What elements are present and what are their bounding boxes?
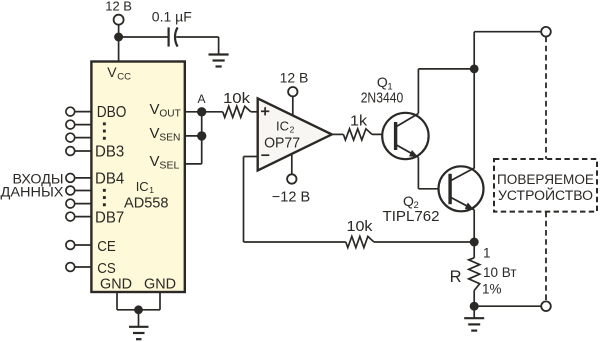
- svg-text:DBO: DBO: [97, 104, 127, 121]
- svg-text:1: 1: [149, 185, 154, 195]
- svg-text:10k: 10k: [347, 218, 374, 235]
- svg-text:OUT: OUT: [159, 108, 180, 119]
- svg-text:TIPL762: TIPL762: [383, 209, 440, 225]
- svg-text:12 В: 12 В: [280, 69, 309, 85]
- svg-text:2: 2: [290, 124, 295, 134]
- svg-text:V: V: [107, 64, 117, 80]
- svg-text:CS: CS: [97, 260, 116, 277]
- svg-text:12 В: 12 В: [105, 0, 132, 14]
- svg-text:10k: 10k: [223, 90, 251, 107]
- svg-text:Q: Q: [377, 74, 388, 90]
- svg-text:2N3440: 2N3440: [361, 91, 404, 107]
- svg-text:1%: 1%: [482, 282, 502, 297]
- svg-text:V: V: [150, 125, 160, 142]
- svg-text:DB7: DB7: [95, 209, 124, 226]
- svg-text:Q: Q: [403, 193, 414, 209]
- svg-text:IC: IC: [136, 179, 149, 194]
- svg-text:DB4: DB4: [95, 171, 125, 188]
- svg-text:1k: 1k: [350, 113, 368, 130]
- svg-text:CE: CE: [97, 238, 116, 255]
- svg-text:−12 В: −12 В: [272, 190, 310, 206]
- svg-text:OP77: OP77: [264, 134, 300, 151]
- svg-text:GND: GND: [100, 277, 132, 293]
- svg-text:ПОВЕРЯЕМОЕ: ПОВЕРЯЕМОЕ: [497, 172, 594, 187]
- svg-text:DB3: DB3: [95, 144, 124, 161]
- svg-text:УСТРОЙСТВО: УСТРОЙСТВО: [498, 188, 593, 203]
- svg-text:0.1 µF: 0.1 µF: [152, 9, 192, 25]
- svg-text:R: R: [450, 268, 462, 286]
- svg-text:ДАННЫХ: ДАННЫХ: [1, 185, 64, 200]
- svg-text:GND: GND: [144, 277, 176, 293]
- svg-text:V: V: [150, 101, 160, 118]
- svg-text:A: A: [197, 92, 205, 106]
- svg-text:10 Вт: 10 Вт: [483, 265, 517, 280]
- svg-text:IC: IC: [276, 118, 289, 133]
- svg-text:SEL: SEL: [159, 161, 179, 172]
- svg-text:SEN: SEN: [159, 133, 180, 144]
- svg-text:V: V: [150, 153, 160, 170]
- svg-text:1: 1: [483, 246, 491, 261]
- svg-text:CC: CC: [117, 72, 131, 83]
- svg-text:AD558: AD558: [124, 195, 169, 212]
